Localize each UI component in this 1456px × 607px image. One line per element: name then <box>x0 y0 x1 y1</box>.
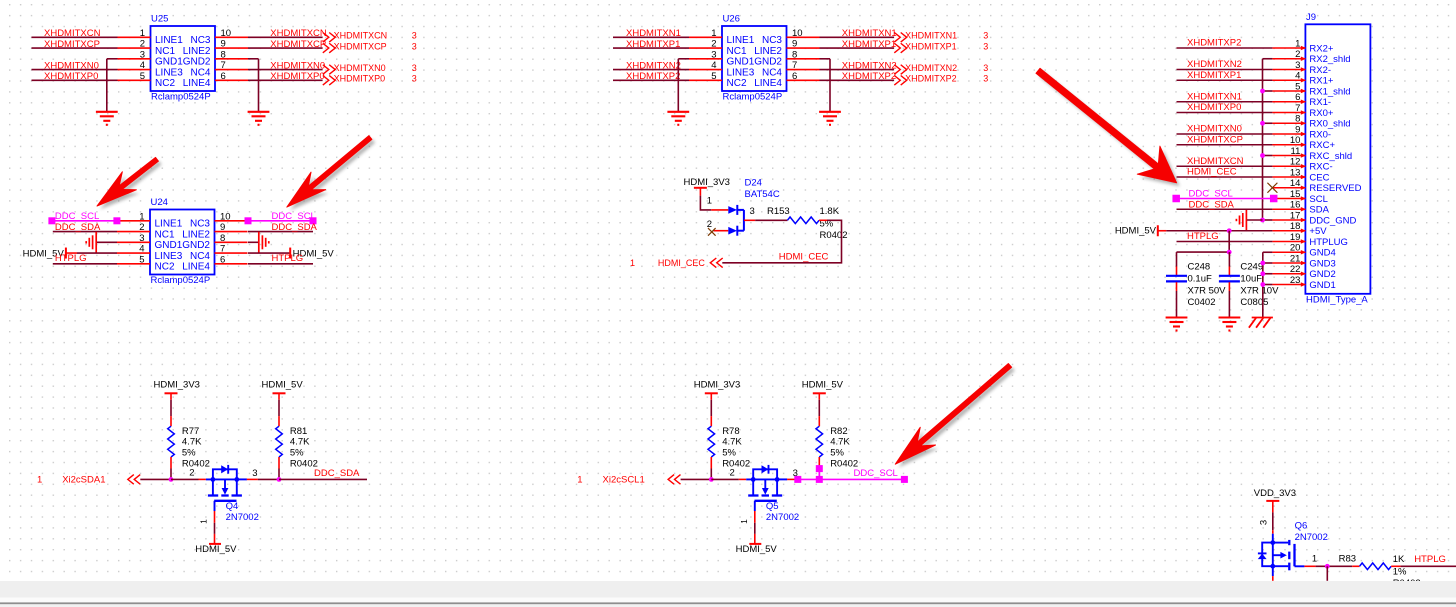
svg-text:16: 16 <box>1290 200 1301 211</box>
svg-text:LINE4: LINE4 <box>182 262 210 273</box>
resistor R77 4.7K <box>168 416 210 469</box>
junction <box>1227 228 1232 233</box>
svg-text:NC1: NC1 <box>155 229 175 240</box>
off-page connector XHDMITXCN <box>323 31 417 42</box>
svg-text:NC3: NC3 <box>190 219 210 230</box>
wire <box>278 469 280 480</box>
svg-text:U26: U26 <box>723 13 740 24</box>
wire <box>819 219 827 221</box>
svg-text:2: 2 <box>140 39 145 50</box>
svg-text:4: 4 <box>140 60 145 71</box>
off-page connector HDMI_CEC <box>630 258 723 268</box>
junction <box>1260 218 1265 223</box>
power HDMI_5V <box>262 379 304 399</box>
svg-text:20: 20 <box>1290 243 1301 254</box>
IC U26 Rclamp0524P body <box>689 13 820 102</box>
wire <box>140 478 171 480</box>
svg-text:XHDMITXN0: XHDMITXN0 <box>270 60 325 71</box>
svg-text:5: 5 <box>139 254 144 265</box>
svg-text:1: 1 <box>199 519 209 524</box>
svg-text:0.1uF: 0.1uF <box>1188 274 1212 285</box>
svg-text:3: 3 <box>750 206 755 217</box>
wire <box>214 523 216 534</box>
svg-text:3: 3 <box>252 468 257 479</box>
svg-text:2: 2 <box>139 222 144 233</box>
svg-text:HDMI_CEC: HDMI_CEC <box>779 252 829 263</box>
svg-text:LINE2: LINE2 <box>182 229 210 240</box>
svg-text:3: 3 <box>1259 520 1270 525</box>
wire <box>106 59 108 112</box>
off-page connector Xi2cSDA1 <box>37 475 140 486</box>
svg-text:RX2+: RX2+ <box>1309 43 1333 54</box>
svg-text:RXC_shld: RXC_shld <box>1309 151 1352 162</box>
svg-text:HTPLG: HTPLG <box>1414 554 1446 565</box>
svg-text:NC2: NC2 <box>155 78 175 89</box>
wire <box>1401 565 1456 567</box>
svg-text:1K: 1K <box>1393 554 1405 565</box>
wire <box>820 58 831 60</box>
svg-text:3: 3 <box>983 31 988 41</box>
wire <box>1177 251 1230 253</box>
svg-text:HDMI_CEC: HDMI_CEC <box>658 258 706 268</box>
capacitor C248 0.1uF <box>1166 252 1226 317</box>
wire ground bus <box>1263 252 1273 317</box>
selection handle <box>113 217 120 224</box>
svg-text:NC1: NC1 <box>155 46 175 57</box>
wire <box>613 47 689 49</box>
svg-text:4.7K: 4.7K <box>722 437 742 448</box>
svg-text:19: 19 <box>1290 232 1301 243</box>
resistor R83 1K <box>1339 553 1421 589</box>
wire <box>820 47 895 49</box>
svg-text:12: 12 <box>1290 157 1301 168</box>
svg-text:5: 5 <box>711 71 716 82</box>
svg-text:XHDMITXP1: XHDMITXP1 <box>842 39 896 50</box>
svg-text:LINE3: LINE3 <box>155 251 183 262</box>
wire <box>1177 79 1273 81</box>
svg-text:XHDMITXP1: XHDMITXP1 <box>1187 70 1241 81</box>
svg-text:XHDMITXN1: XHDMITXN1 <box>842 28 897 39</box>
svg-text:7: 7 <box>1295 103 1300 114</box>
svg-text:9: 9 <box>221 39 226 50</box>
svg-text:2N7002: 2N7002 <box>766 512 799 523</box>
wire <box>248 47 323 49</box>
svg-text:XHDMITXN2: XHDMITXN2 <box>905 63 957 73</box>
junction <box>709 477 714 482</box>
power HDMI_5V <box>23 248 77 260</box>
wire <box>754 511 756 523</box>
junction <box>1260 89 1265 94</box>
wire <box>53 263 117 265</box>
svg-text:Xi2cSDA1: Xi2cSDA1 <box>62 475 105 486</box>
svg-text:XHDMITXP0: XHDMITXP0 <box>44 71 98 82</box>
power HDMI_5V <box>736 534 778 555</box>
wire <box>1177 176 1273 178</box>
off-page connector XHDMITXN0 <box>323 63 417 74</box>
wire <box>1272 566 1274 576</box>
svg-text:X7R 10V: X7R 10V <box>1240 285 1279 296</box>
wire <box>722 220 841 262</box>
svg-text:HDMI_5V: HDMI_5V <box>736 544 778 555</box>
wire <box>754 523 756 534</box>
wire <box>1177 133 1273 135</box>
svg-text:9: 9 <box>792 39 797 50</box>
wire DDC_SCL (selected) <box>52 220 117 222</box>
wire <box>710 469 712 480</box>
svg-text:C248: C248 <box>1188 262 1211 273</box>
wire <box>1177 47 1273 49</box>
svg-text:LINE3: LINE3 <box>155 67 183 78</box>
svg-text:5%: 5% <box>830 448 844 459</box>
svg-text:XHDMITXCN: XHDMITXCN <box>334 31 388 41</box>
svg-text:RXC+: RXC+ <box>1309 140 1335 151</box>
power HDMI_5V <box>802 379 844 399</box>
wire <box>258 59 260 112</box>
svg-text:GND4: GND4 <box>1309 248 1335 259</box>
wire <box>248 231 313 233</box>
power VDD_3V3 <box>1254 488 1296 513</box>
svg-text:18: 18 <box>1290 221 1301 232</box>
svg-text:C249: C249 <box>1240 262 1263 273</box>
svg-text:XHDMITXN2: XHDMITXN2 <box>626 60 681 71</box>
svg-text:GND1: GND1 <box>1309 280 1335 291</box>
wire <box>711 478 739 480</box>
wire <box>1177 144 1273 146</box>
svg-text:GND2: GND2 <box>183 57 211 68</box>
svg-text:7: 7 <box>220 244 225 255</box>
svg-text:DDC_SDA: DDC_SDA <box>55 222 101 233</box>
diode D24 BAT54C <box>707 178 780 236</box>
annotation arrow <box>100 161 161 210</box>
svg-text:1: 1 <box>739 519 749 524</box>
wire <box>96 241 117 243</box>
svg-text:RX0_shld: RX0_shld <box>1309 119 1350 130</box>
svg-text:GND1: GND1 <box>727 57 755 68</box>
svg-text:Q6: Q6 <box>1295 521 1308 532</box>
wire <box>820 79 895 81</box>
IC U24 Rclamp0524P body <box>117 197 248 286</box>
svg-text:NC2: NC2 <box>155 262 175 273</box>
power HDMI_3V3 <box>694 379 740 399</box>
svg-text:XHDMITXP1: XHDMITXP1 <box>626 39 680 50</box>
junction <box>1260 282 1265 287</box>
wire <box>1272 530 1274 534</box>
wire DDC_SCL (selected) <box>818 468 820 479</box>
svg-text:HTPLG: HTPLG <box>1187 231 1219 242</box>
svg-text:XHDMITXP2: XHDMITXP2 <box>842 71 896 82</box>
ground <box>96 112 118 125</box>
svg-text:DDC_SCL: DDC_SCL <box>854 468 898 479</box>
svg-text:23: 23 <box>1290 275 1301 286</box>
svg-text:VDD_3V3: VDD_3V3 <box>1254 488 1296 499</box>
svg-text:RX1-: RX1- <box>1309 97 1331 108</box>
svg-text:7: 7 <box>221 60 226 71</box>
svg-text:1.8K: 1.8K <box>820 206 840 217</box>
chassis ground <box>1236 210 1246 231</box>
status bar <box>0 581 1456 607</box>
svg-text:XHDMITXN1: XHDMITXN1 <box>1187 91 1242 102</box>
wire <box>1177 165 1273 167</box>
wire <box>700 196 711 210</box>
wire <box>199 478 206 480</box>
svg-text:5: 5 <box>140 71 145 82</box>
resistor R82 4.7K <box>816 416 858 469</box>
svg-text:XHDMITXP2: XHDMITXP2 <box>626 71 680 82</box>
svg-text:R78: R78 <box>722 426 739 437</box>
wire <box>32 69 118 71</box>
svg-text:10: 10 <box>1290 135 1301 146</box>
svg-text:XHDMITXN2: XHDMITXN2 <box>842 60 897 71</box>
wire <box>613 36 689 38</box>
wire shield bus <box>1263 59 1273 220</box>
wire <box>1228 231 1230 252</box>
selection handle <box>816 476 823 483</box>
svg-text:1: 1 <box>577 475 582 486</box>
svg-text:15: 15 <box>1290 189 1301 200</box>
wire <box>278 400 280 416</box>
svg-text:D24: D24 <box>745 178 762 189</box>
svg-text:DDC_SDA: DDC_SDA <box>314 468 360 479</box>
wire <box>170 469 172 480</box>
svg-text:3: 3 <box>139 233 144 244</box>
svg-text:RX2-: RX2- <box>1309 65 1331 76</box>
svg-text:R0402: R0402 <box>722 458 750 469</box>
svg-text:2: 2 <box>189 468 194 479</box>
svg-text:RXC-: RXC- <box>1309 162 1332 173</box>
svg-text:Rclamp0524P: Rclamp0524P <box>723 92 783 103</box>
svg-text:2N7002: 2N7002 <box>1295 532 1328 543</box>
svg-text:8: 8 <box>221 49 226 60</box>
wire <box>77 252 117 254</box>
wire <box>1272 576 1274 581</box>
svg-text:17: 17 <box>1290 210 1301 221</box>
svg-text:RX1_shld: RX1_shld <box>1309 86 1350 97</box>
svg-text:LINE3: LINE3 <box>727 67 755 78</box>
svg-text:XHDMITXN1: XHDMITXN1 <box>626 28 681 39</box>
wire <box>247 478 258 480</box>
svg-text:XHDMITXP2: XHDMITXP2 <box>905 74 957 84</box>
svg-text:1: 1 <box>1295 38 1300 49</box>
svg-text:HDMI_5V: HDMI_5V <box>195 544 237 555</box>
svg-text:GND1: GND1 <box>155 57 183 68</box>
wire <box>818 469 820 480</box>
svg-text:R81: R81 <box>290 426 307 437</box>
svg-text:XHDMITXCP: XHDMITXCP <box>44 39 100 50</box>
wire <box>1316 565 1353 567</box>
wire <box>613 69 689 71</box>
svg-text:4.7K: 4.7K <box>182 437 202 448</box>
svg-text:HDMI_5V: HDMI_5V <box>1115 226 1157 237</box>
svg-text:HTPLG: HTPLG <box>272 253 304 264</box>
svg-text:3: 3 <box>412 74 417 84</box>
svg-text:SCL: SCL <box>1309 194 1327 205</box>
wire <box>1166 230 1272 232</box>
wire <box>681 478 712 480</box>
wire <box>248 69 323 71</box>
svg-text:10: 10 <box>792 28 803 39</box>
svg-text:3: 3 <box>983 74 988 84</box>
svg-text:4: 4 <box>711 60 716 71</box>
ground <box>248 112 270 125</box>
svg-text:5%: 5% <box>182 448 196 459</box>
svg-text:GND2: GND2 <box>754 57 782 68</box>
annotation arrow <box>290 139 375 210</box>
svg-text:R77: R77 <box>182 426 199 437</box>
junction <box>1325 564 1330 569</box>
selection handle <box>48 217 55 224</box>
svg-text:HDMI_3V3: HDMI_3V3 <box>684 177 730 188</box>
selection handle <box>1270 195 1278 203</box>
svg-text:7: 7 <box>792 60 797 71</box>
wire <box>1177 241 1273 243</box>
annotation arrow <box>899 367 1015 468</box>
svg-text:LINE2: LINE2 <box>183 46 211 57</box>
svg-text:U24: U24 <box>151 197 168 208</box>
svg-text:XHDMITXN0: XHDMITXN0 <box>44 60 99 71</box>
svg-text:2: 2 <box>707 219 712 230</box>
svg-text:R0402: R0402 <box>820 230 848 241</box>
wire <box>279 478 367 480</box>
svg-text:DDC_SCL: DDC_SCL <box>55 211 99 222</box>
svg-text:HDMI_CEC: HDMI_CEC <box>1187 167 1237 178</box>
svg-text:5%: 5% <box>290 448 304 459</box>
svg-text:GND3: GND3 <box>1309 258 1335 269</box>
svg-text:XHDMITXCN: XHDMITXCN <box>270 28 327 39</box>
off-page connector XHDMITXCP <box>323 41 417 52</box>
svg-text:GND1: GND1 <box>155 240 183 251</box>
svg-text:9: 9 <box>1295 124 1300 135</box>
svg-text:NC4: NC4 <box>190 251 210 262</box>
svg-text:HTPLUG: HTPLUG <box>1309 237 1348 248</box>
svg-text:4: 4 <box>139 244 144 255</box>
wire <box>170 400 172 416</box>
svg-text:Q5: Q5 <box>766 501 779 512</box>
wire <box>214 511 216 523</box>
wire <box>1177 208 1273 210</box>
junction <box>1260 153 1265 158</box>
svg-text:3: 3 <box>1295 60 1300 71</box>
wire <box>171 478 199 480</box>
wire <box>1272 512 1274 530</box>
svg-text:1: 1 <box>37 475 42 486</box>
wire <box>32 36 118 38</box>
annotation arrow <box>1039 72 1180 186</box>
svg-text:XHDMITXP0: XHDMITXP0 <box>334 74 386 84</box>
svg-text:XHDMITXCP: XHDMITXCP <box>270 39 326 50</box>
svg-text:6: 6 <box>792 71 797 82</box>
svg-text:C0402: C0402 <box>1188 297 1216 308</box>
ground <box>667 112 689 125</box>
chassis ground <box>86 232 96 253</box>
svg-text:R82: R82 <box>830 426 847 437</box>
svg-text:2: 2 <box>711 39 716 50</box>
junction <box>169 477 174 482</box>
svg-text:LINE2: LINE2 <box>754 46 782 57</box>
wire <box>53 231 117 233</box>
svg-text:5: 5 <box>1295 81 1300 92</box>
svg-text:3: 3 <box>412 31 417 41</box>
selection handle <box>245 217 252 224</box>
resistor R153 <box>767 206 848 241</box>
power HDMI_5V <box>195 534 237 555</box>
svg-text:XHDMITXP1: XHDMITXP1 <box>905 41 957 51</box>
off-page connector XHDMITXP2 <box>894 74 988 85</box>
svg-text:XHDMITXCN: XHDMITXCN <box>1187 156 1244 167</box>
svg-text:10uF: 10uF <box>1240 274 1262 285</box>
svg-text:DDC_SCL: DDC_SCL <box>272 211 316 222</box>
svg-text:HDMI_Type_A: HDMI_Type_A <box>1306 295 1368 306</box>
selection handle <box>816 465 823 472</box>
junction <box>1260 271 1265 276</box>
svg-text:6: 6 <box>221 71 226 82</box>
wire DDC_SCL (selected) <box>798 478 905 480</box>
wire DDC_SCL (selected) <box>1176 198 1274 200</box>
ground <box>819 112 841 125</box>
svg-text:RX0+: RX0+ <box>1309 108 1333 119</box>
wire <box>677 59 679 112</box>
svg-text:5%: 5% <box>722 448 736 459</box>
svg-text:Q4: Q4 <box>226 501 239 512</box>
junction <box>1260 121 1265 126</box>
wire <box>1177 101 1273 103</box>
svg-text:DDC_SDA: DDC_SDA <box>1189 199 1235 210</box>
chassis ground <box>1249 318 1273 328</box>
wire <box>613 79 689 81</box>
svg-text:HDMI_5V: HDMI_5V <box>262 379 304 390</box>
svg-text:21: 21 <box>1290 253 1301 264</box>
svg-text:11: 11 <box>1291 146 1301 157</box>
wire <box>248 79 323 81</box>
off-page connector XHDMITXN2 <box>894 63 988 74</box>
svg-text:4: 4 <box>1295 71 1300 82</box>
svg-text:1: 1 <box>139 211 144 222</box>
selection handle <box>901 476 908 483</box>
svg-text:3: 3 <box>983 41 988 51</box>
svg-text:Xi2cSCL1: Xi2cSCL1 <box>603 475 645 486</box>
svg-text:HDMI_5V: HDMI_5V <box>802 379 844 390</box>
wire <box>248 263 313 265</box>
power HDMI_3V3 <box>684 177 730 196</box>
svg-text:3: 3 <box>412 41 417 51</box>
svg-text:22: 22 <box>1290 264 1301 275</box>
svg-text:NC4: NC4 <box>762 67 782 78</box>
ground <box>1219 318 1241 331</box>
svg-text:8: 8 <box>220 233 225 244</box>
svg-text:GND2: GND2 <box>1309 269 1335 280</box>
IC U25 Rclamp0524P body <box>118 13 249 102</box>
svg-text:RX0-: RX0- <box>1309 129 1331 140</box>
svg-text:NC4: NC4 <box>190 67 210 78</box>
selection handle <box>1172 195 1180 203</box>
svg-text:NC3: NC3 <box>762 35 782 46</box>
svg-text:DDC_GND: DDC_GND <box>1309 215 1356 226</box>
svg-text:SDA: SDA <box>1309 205 1329 216</box>
wire <box>32 79 118 81</box>
connector J9 HDMI_Type_A body <box>1272 12 1370 306</box>
wire <box>248 252 290 254</box>
svg-text:J9: J9 <box>1306 12 1316 23</box>
svg-text:1: 1 <box>711 28 716 39</box>
wire <box>820 36 895 38</box>
wire <box>248 241 259 243</box>
svg-text:HTPLG: HTPLG <box>55 253 87 264</box>
svg-text:3: 3 <box>983 63 988 73</box>
svg-text:2: 2 <box>1295 49 1300 60</box>
svg-text:RESERVED: RESERVED <box>1309 183 1361 194</box>
svg-text:LINE1: LINE1 <box>155 219 183 230</box>
wire <box>248 58 259 60</box>
junction <box>1260 261 1265 266</box>
